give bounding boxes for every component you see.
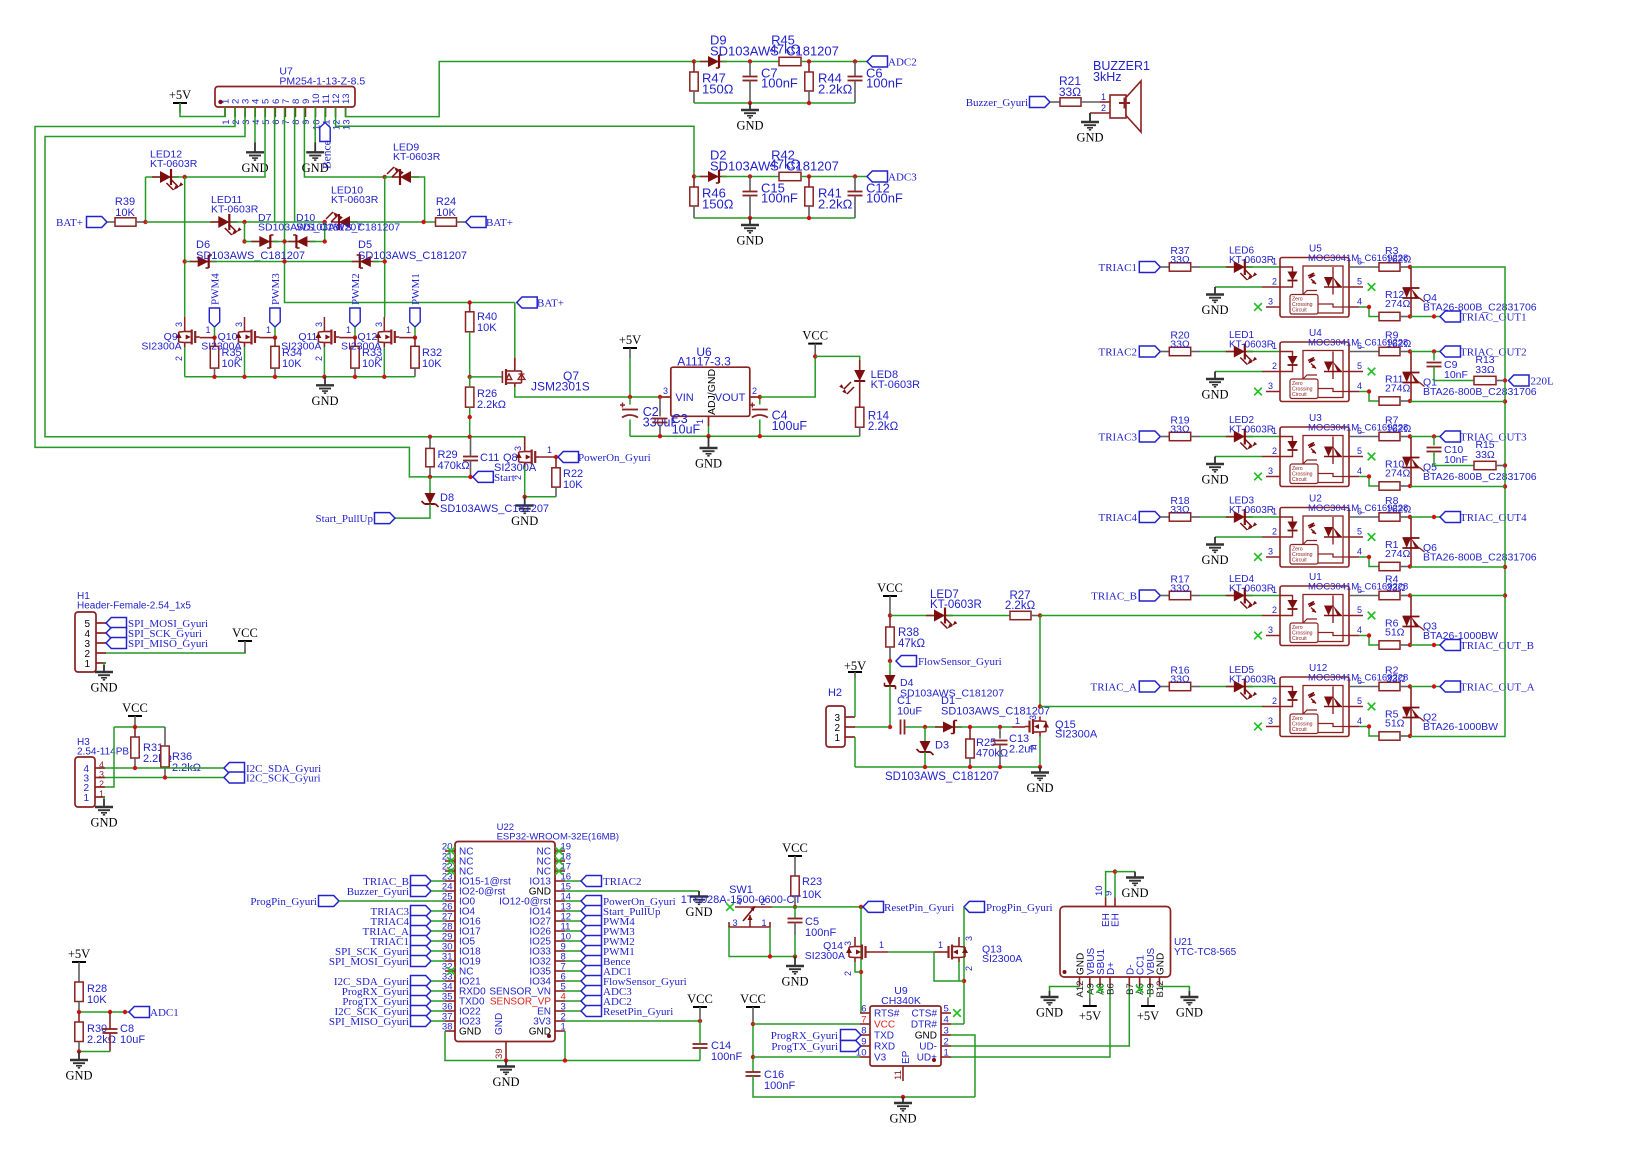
svg-text:YTC-TC8-565: YTC-TC8-565 [1174, 947, 1237, 958]
junction [859, 905, 863, 909]
svg-text:TRIAC_OUT_B: TRIAC_OUT_B [1460, 640, 1534, 652]
wire lead [749, 81, 751, 104]
svg-text:47kΩ: 47kΩ [770, 157, 801, 172]
capacitor C14 100nF [693, 1043, 708, 1045]
resistor R34 10K [271, 346, 279, 368]
svg-text:10K: 10K [477, 322, 497, 334]
svg-text:2.54-114PB: 2.54-114PB [77, 747, 129, 758]
svg-text:TRIAC4: TRIAC4 [1099, 512, 1138, 524]
wire [854, 737, 856, 767]
net flag Bence [320, 123, 330, 142]
no-connect [447, 867, 455, 875]
svg-text:1: 1 [834, 733, 840, 744]
svg-text:2: 2 [1272, 696, 1277, 706]
wire [1039, 616, 1041, 707]
wire lead [1349, 686, 1379, 688]
wire [924, 752, 926, 767]
power +5V (ADC1) [72, 961, 86, 963]
svg-text:1: 1 [1272, 676, 1277, 686]
svg-text:TRIAC_OUT1: TRIAC_OUT1 [1460, 312, 1527, 324]
svg-text:SPI_MISO_Gyuri: SPI_MISO_Gyuri [329, 1016, 409, 1028]
wire U22 ground rail [445, 1031, 700, 1061]
resistor R30 2.2k [75, 1022, 83, 1042]
svg-text:10K: 10K [422, 358, 442, 370]
U9 pin 11 EP [902, 1066, 904, 1081]
wire [759, 397, 761, 405]
no-connect SW1 pin4 [726, 903, 734, 911]
svg-text:I2C_SCK_Gyuri: I2C_SCK_Gyuri [246, 773, 321, 785]
svg-text:SD103AWS_C181207: SD103AWS_C181207 [885, 771, 999, 783]
svg-text:BAT+: BAT+ [537, 298, 564, 310]
junction [468, 375, 472, 379]
wire lead [808, 62, 810, 73]
svg-text:+5V: +5V [68, 947, 90, 961]
wire [525, 496, 556, 498]
svg-text:TRIAC1: TRIAC1 [1099, 262, 1138, 274]
U22 pin 39 GND [505, 1042, 507, 1061]
junction [748, 174, 752, 178]
junction [698, 1019, 702, 1023]
resistor R2 33Ω [1379, 682, 1400, 690]
wire BAT+ to Q7 drain [514, 303, 516, 358]
svg-text:3: 3 [1268, 466, 1273, 476]
junction [807, 59, 811, 63]
junction [1432, 434, 1436, 438]
svg-text:1: 1 [1101, 92, 1106, 102]
no-connect [447, 857, 455, 865]
wire pin3 stub [1266, 635, 1280, 637]
wire lead [749, 62, 751, 77]
wire [699, 1021, 701, 1043]
wire [469, 407, 471, 437]
power VCC (SW1) [788, 855, 802, 857]
wire [431, 1020, 445, 1022]
svg-text:ProgPin_Gyuri: ProgPin_Gyuri [250, 896, 317, 908]
wire drain stub [383, 317, 385, 327]
svg-text:3: 3 [1268, 547, 1273, 557]
wire lead [1160, 436, 1169, 438]
triac Q1 BTA26-800B_C2831706 [1410, 352, 1412, 402]
U9 pin 6 RTS# [860, 1012, 870, 1014]
svg-text:100uF: 100uF [772, 419, 808, 433]
no-connect U1 pin5 [1368, 612, 1376, 620]
U21 pin A12 GND [1079, 977, 1081, 987]
junction [183, 175, 187, 179]
wire [722, 176, 780, 178]
svg-text:38: 38 [442, 1022, 453, 1033]
TRIAC4 [411, 916, 432, 927]
junction [353, 375, 357, 379]
svg-text:10K: 10K [282, 358, 302, 370]
wire to U1 pin2 [1040, 615, 1262, 617]
wire lead [470, 461, 472, 477]
svg-text:162Ω: 162Ω [1386, 254, 1412, 266]
svg-text:2.2kΩ: 2.2kΩ [1005, 600, 1036, 612]
wire H3 pin 4 stub [95, 767, 105, 769]
svg-text:1: 1 [879, 940, 884, 950]
svg-text:162Ω: 162Ω [1386, 338, 1412, 350]
junction [504, 1058, 508, 1062]
resistor R3 162Ω [1379, 263, 1400, 271]
wire [1089, 987, 1091, 998]
resistor R16 33 [1169, 682, 1190, 690]
svg-text:KT-0603R: KT-0603R [211, 204, 259, 216]
wire [565, 880, 581, 882]
U7 pin 13 [345, 107, 347, 117]
svg-text:TRIAC_OUT_A: TRIAC_OUT_A [1460, 682, 1535, 694]
resistor R14 2.2k [856, 407, 864, 427]
svg-text:3: 3 [374, 322, 384, 327]
wire U22 pin1 GND [564, 1031, 566, 1061]
ground (U21 A12) [1041, 991, 1059, 1005]
svg-text:3: 3 [1268, 625, 1273, 635]
wire U6 ground rail [630, 435, 860, 437]
svg-text:274Ω: 274Ω [1385, 468, 1411, 480]
wire lead [1349, 436, 1379, 438]
optocoupler U3 MOC3041M [1280, 427, 1349, 487]
junction [748, 216, 752, 220]
svg-text:33Ω: 33Ω [1386, 673, 1406, 685]
svg-text:UD-: UD- [919, 1042, 937, 1053]
SPI_SCK_Gyuri [411, 946, 432, 957]
svg-text:GND: GND [1201, 553, 1228, 567]
wire lead [78, 1002, 80, 1013]
svg-text:2: 2 [1272, 446, 1277, 456]
svg-text:GND: GND [90, 816, 117, 830]
svg-text:3: 3 [663, 386, 668, 396]
svg-text:RTS#: RTS# [874, 1009, 900, 1020]
svg-text:1: 1 [346, 325, 351, 335]
wire [414, 327, 416, 338]
PWM3 [581, 926, 602, 937]
wire DTR# [951, 1023, 964, 1025]
wire lead [1100, 101, 1110, 103]
svg-text:V3: V3 [874, 1053, 887, 1064]
svg-text:470kΩ: 470kΩ [976, 748, 1008, 760]
junction [242, 375, 246, 379]
wire [565, 930, 581, 932]
power VCC (U9) [746, 1006, 760, 1008]
wire lead [1400, 566, 1410, 568]
wire lead [859, 427, 861, 436]
junction [242, 220, 246, 224]
wire source [244, 347, 246, 377]
wire lead [693, 177, 695, 188]
wire [431, 1010, 445, 1012]
junction [183, 259, 187, 263]
U22 pin 14 IO12-0@rst [555, 900, 565, 902]
svg-text:EP: EP [901, 1050, 912, 1064]
svg-text:D3: D3 [935, 740, 949, 752]
junction [77, 1049, 81, 1053]
wire [957, 726, 1013, 728]
wire lead [808, 206, 810, 218]
junction [1408, 399, 1412, 403]
svg-text:KT-0603R: KT-0603R [871, 379, 921, 391]
wire [1410, 351, 1440, 353]
wire pin4 stub [1349, 306, 1359, 308]
resistor R23 10K [791, 876, 799, 896]
U7 pin 3 [244, 107, 246, 117]
wire H1 pin 3 stub [96, 642, 106, 644]
junction [923, 725, 927, 729]
no-connect [447, 847, 455, 855]
wire H1 pin 5 stub [96, 622, 106, 624]
TRIAC_A [411, 926, 432, 937]
junction [813, 354, 817, 358]
svg-text:VOUT: VOUT [715, 392, 746, 404]
svg-text:33Ω: 33Ω [1170, 504, 1190, 516]
wire [629, 358, 631, 397]
junction [748, 101, 752, 105]
resistor R41 2.2k [805, 187, 813, 206]
svg-text:1: 1 [406, 325, 411, 335]
net flag ADC2 [867, 56, 888, 67]
wire [769, 927, 771, 957]
U22 pin 16 IO13 [555, 880, 565, 882]
wire U21 B12 GND [1159, 987, 1189, 992]
wire pin5 stub [1349, 456, 1363, 458]
wire pin5 stub [1349, 371, 1363, 373]
wire lead [134, 727, 136, 737]
U7 pin 1 [224, 107, 226, 117]
resistor R38 47k [886, 627, 894, 647]
svg-text:5: 5 [944, 1004, 949, 1015]
U22 pin 13 IO14 [555, 910, 565, 912]
svg-text:SI2300A: SI2300A [494, 462, 537, 474]
resistor R9 162Ω [1379, 347, 1400, 355]
optocoupler U12 MOC3041M [1280, 677, 1349, 737]
wire lead [1191, 516, 1200, 518]
ground (ADC1) [70, 1052, 88, 1068]
U22 pin 20 NC [445, 850, 455, 852]
wire H3 pin 2 stub [95, 786, 105, 788]
svg-text:ProgTX_Gyuri: ProgTX_Gyuri [771, 1041, 838, 1053]
junction [1038, 765, 1042, 769]
U7 pin 6 [274, 107, 276, 117]
wire U7 pin9 to LED9 [304, 107, 384, 177]
wire [854, 678, 856, 717]
svg-text:GND: GND [695, 457, 722, 471]
wire lead [854, 177, 856, 192]
wire lead [1160, 351, 1169, 353]
wire gate lead [260, 337, 276, 339]
svg-text:GND: GND [736, 119, 763, 133]
wire U7 pin4 to GND [254, 107, 256, 143]
U21 pin 10 EH [1105, 898, 1107, 907]
wire [565, 990, 581, 992]
optocoupler U1 MOC3041M [1280, 586, 1349, 646]
wire pin3 stub [1266, 726, 1280, 728]
wire Q14 drain stub [854, 937, 856, 942]
wire Q13 source [958, 962, 960, 981]
svg-text:3: 3 [314, 322, 324, 327]
junction [923, 765, 927, 769]
Buzzer_Gyuri [411, 886, 432, 897]
svg-text:PWM4: PWM4 [210, 273, 222, 305]
junction [1432, 515, 1436, 519]
wire lead [794, 896, 796, 907]
no-connect U21 SBU1 [1096, 985, 1104, 993]
resistor R37 33 [1169, 263, 1190, 271]
svg-text:1: 1 [1272, 507, 1277, 517]
svg-text:3: 3 [964, 936, 974, 941]
svg-text:CTS#: CTS# [911, 1009, 937, 1020]
U22 pin 17 NC [555, 870, 565, 872]
U22 pin1 marker [547, 1034, 551, 1038]
junction [758, 395, 762, 399]
junction [353, 335, 357, 339]
svg-text:PWM3: PWM3 [270, 273, 282, 305]
capacitor C16 100nF [746, 1071, 761, 1073]
resistor R11 274Ω [1379, 397, 1400, 405]
wire lead [1349, 516, 1379, 518]
wire lead [1160, 516, 1169, 518]
wire [565, 960, 581, 962]
wire [1200, 516, 1234, 518]
wire lead [429, 467, 431, 477]
U9 pin 10 V3 [860, 1056, 870, 1058]
wire lead [969, 727, 971, 739]
U9 pin 3 GND [941, 1034, 951, 1036]
wire [185, 261, 198, 263]
wire lead [693, 62, 695, 73]
wire [1410, 316, 1440, 318]
svg-text:162Ω: 162Ω [1386, 504, 1412, 516]
U7 pin 2 [234, 107, 236, 117]
svg-text:D+: D+ [1106, 962, 1117, 975]
svg-text:KT-0603R: KT-0603R [331, 194, 379, 206]
U21 pin B6 D+ [1109, 977, 1111, 987]
wire [1200, 686, 1234, 688]
no-connect U4 pin5 [1368, 368, 1376, 376]
svg-text:2: 2 [1101, 103, 1106, 113]
svg-text:162Ω: 162Ω [1386, 423, 1412, 435]
wire LED12 node down to Q9 drain [184, 177, 186, 317]
capacitor C2 330uF [622, 409, 638, 411]
wire [629, 420, 631, 437]
svg-text:220L: 220L [1531, 376, 1555, 388]
resistor R22 10K [552, 468, 560, 487]
ground (ADC3) [741, 218, 759, 233]
net flag PWM1 [410, 308, 420, 327]
junction [242, 239, 246, 243]
svg-text:SI2300A: SI2300A [281, 341, 321, 353]
wire ground rail [694, 102, 855, 104]
wire [350, 221, 435, 223]
transistor Q7 JSM2301S [502, 367, 521, 387]
wire U22 3V3 [565, 1020, 700, 1022]
wire buzzer pin2 [1090, 112, 1110, 114]
triac Q4 BTA26-800B_C2831706 [1410, 267, 1412, 317]
wire [794, 907, 796, 919]
junction [563, 1058, 567, 1062]
wire pin2 stub [1262, 286, 1280, 288]
wire [1410, 595, 1505, 597]
junction [323, 220, 327, 224]
net flag BAT+ Q7 [517, 297, 538, 308]
junction [468, 415, 472, 419]
U21 pin B9 VBUS [1149, 977, 1151, 987]
wire [385, 176, 400, 178]
resistor R25 470k [966, 739, 974, 758]
svg-text:2.2kΩ: 2.2kΩ [818, 82, 853, 97]
resistor R1 274Ω [1379, 562, 1400, 570]
svg-text:VCC: VCC [232, 626, 258, 640]
capacitor C12 100nF [848, 191, 863, 193]
wire [565, 940, 581, 942]
ADC1 [581, 966, 602, 977]
svg-text:ADC3: ADC3 [888, 172, 917, 184]
capacitor C1 10uF [900, 720, 902, 735]
wire [79, 1011, 129, 1013]
wire U7 pin6 down [274, 107, 276, 222]
wire lead [414, 338, 416, 347]
junction [888, 613, 892, 617]
wire [694, 176, 708, 178]
svg-text:33Ω: 33Ω [1170, 424, 1190, 436]
U21 pin B7 D- [1128, 977, 1130, 987]
svg-text:FlowSensor_Gyuri: FlowSensor_Gyuri [918, 656, 1002, 668]
U22 pin 21 NC [445, 860, 455, 862]
junction [751, 1055, 755, 1059]
wire V3 to U9 pin10 [753, 1056, 860, 1058]
wire lead [859, 381, 861, 407]
wire H2 pin 3 stub [845, 716, 855, 718]
svg-text:2: 2 [964, 966, 974, 971]
svg-text:ADC1: ADC1 [150, 1007, 179, 1019]
TRIAC_OUT_A [1440, 681, 1461, 692]
wire lead [1400, 735, 1410, 737]
ground (U5) [1206, 287, 1224, 302]
wire [565, 970, 581, 972]
svg-text:2.2kΩ: 2.2kΩ [818, 197, 853, 212]
U7 pin 8 [294, 107, 296, 117]
wire [354, 327, 356, 338]
U22 pin 25 IO0 [445, 900, 455, 902]
no-connect U12 pin3 [1254, 723, 1262, 731]
diode D9 SD103AWS_C181207 [700, 61, 727, 63]
wire UD+ to D+ [951, 987, 1110, 1058]
TRIAC1 [411, 936, 432, 947]
resistor R35 10K [210, 346, 218, 368]
transistor Q13 SI2300A [944, 942, 965, 962]
wire [1039, 737, 1041, 768]
wire [1200, 436, 1234, 438]
svg-text:33Ω: 33Ω [1170, 254, 1190, 266]
svg-text:4: 4 [1357, 625, 1362, 635]
net flag TRIAC1 [1139, 262, 1160, 273]
junction [1367, 555, 1371, 559]
ground (MOSFET rail) [316, 377, 334, 393]
resistor R45 47k [779, 57, 801, 65]
wire U21 A12 GND [1050, 987, 1080, 992]
svg-text:5: 5 [1357, 361, 1362, 371]
svg-text:3: 3 [944, 1026, 949, 1037]
wire source [323, 347, 325, 377]
junction [1432, 643, 1436, 647]
svg-text:100nF: 100nF [866, 76, 903, 91]
net flag TRIAC_A [1139, 681, 1160, 692]
svg-text:2.2kΩ: 2.2kΩ [868, 421, 899, 433]
junction [853, 59, 857, 63]
svg-text:2: 2 [314, 356, 324, 361]
no-connect U9 CTS# [953, 1009, 961, 1017]
wire [104, 797, 105, 799]
wire pin2 to ground [1215, 371, 1262, 373]
resistor R33 10K [351, 346, 359, 368]
wire gate lead [339, 337, 355, 339]
